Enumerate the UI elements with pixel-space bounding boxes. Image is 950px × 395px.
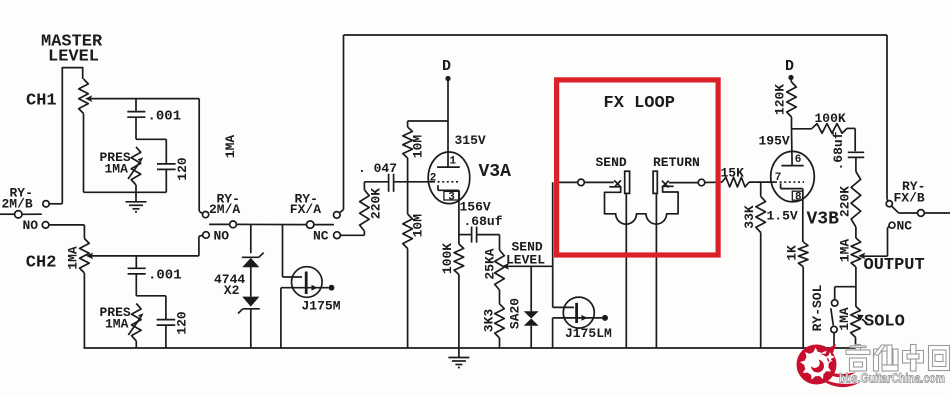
relay RY-2M/B label [2,186,33,212]
svg-text:120: 120 [175,157,190,181]
svg-text:CH2: CH2 [26,254,57,273]
svg-text:100K: 100K [815,111,846,126]
svg-text:V3B: V3B [807,210,840,230]
resistor 100K cathode [440,243,464,348]
potentiometer PRES 1MA CH1 [100,147,144,192]
node RY-2M/B terminal [43,201,49,207]
wire V3A plate lead [447,81,449,167]
svg-text:1MA: 1MA [105,162,129,177]
potentiometer 1MA output [837,238,865,267]
svg-text:25KA: 25KA [482,248,497,279]
wire RY-2M/B common from left edge [0,213,42,215]
ground CH1 [126,192,147,212]
label J175LM [565,326,612,341]
jack RETURN tip contact [662,181,669,188]
capacitor C .001 CH1 [127,99,181,140]
tube V3A plate [437,166,460,168]
wire NO to CH2 pot [49,225,85,239]
svg-text:OUTPUT: OUTPUT [864,256,925,275]
node RY-2M/B NO terminal [23,218,49,233]
wire send terminal to jack [584,181,614,183]
resistor 3K3 [481,290,504,348]
wire left riser to RY-FX/A [340,35,344,213]
pin 6 V3B [795,154,802,166]
wire RETURN sleeve to ground [655,193,657,348]
pin 1 V3A [450,156,457,168]
resistor 220K (FX/A NC feed) [360,182,384,236]
watermark url text [839,371,945,386]
wire right riser to RY-FX/B [887,35,888,201]
wire J175M gate feed [283,224,303,277]
tube V3B envelope [771,151,815,201]
diode zener 4744 lower [238,297,260,314]
svg-text:.68uf: .68uf [464,214,503,229]
svg-text:1MA: 1MA [105,317,129,332]
wire 100K to cap [847,128,855,151]
label OUTPUT [864,256,925,275]
svg-text:LEVEL: LEVEL [48,48,99,67]
svg-text:2M/B: 2M/B [2,197,33,212]
pin 8 V3B [792,191,803,203]
svg-text:3: 3 [448,191,455,203]
jack SEND tip contact [614,180,621,187]
highlight red box FX LOOP [557,80,719,255]
svg-text:RETURN: RETURN [653,155,700,170]
node RY-2M/A NO terminal [203,229,230,244]
node RY-SOL bottom contact [831,326,837,332]
svg-text:10M: 10M [411,214,426,238]
wire FX/B bus to right edge [899,212,950,214]
capacitor C .68uf send [459,214,503,243]
svg-text:J175LM: J175LM [565,326,612,341]
transistor Q J175LM [553,297,602,328]
wire FX loop top bus [344,34,888,36]
svg-text:1MA: 1MA [65,246,80,270]
power node D (V3B supply) [785,58,794,80]
node send terminal [578,179,585,186]
node CH1 label [26,92,57,111]
wire RY-SOL arm [831,308,834,325]
wire SEND sleeve to ground [625,193,627,348]
svg-text:1K: 1K [784,245,799,261]
wire V3B plate node [792,129,813,166]
wire CH1 pot bottom lead [83,114,85,193]
wire CH2 wiper to NO [86,235,203,259]
svg-text:195V: 195V [759,134,790,149]
resistor 33K [742,182,766,348]
node switch contact left [230,221,237,228]
svg-text:220K: 220K [838,186,853,217]
transistor Q J175M [281,267,329,298]
pin 7 V3B [775,172,782,184]
capacitor C 120 CH2 [157,296,190,348]
label 4744 X2 [214,272,245,298]
tube V3B grid [771,181,804,183]
node RY-SOL top contact [832,300,838,306]
svg-text:CH1: CH1 [26,92,57,111]
potentiometer 25KA send level [482,235,509,290]
wire 4744 top lead [250,225,252,254]
svg-text:3K3: 3K3 [481,309,496,333]
resistor 15K [721,166,750,187]
svg-text:2: 2 [430,173,437,185]
node RY-2M/A terminal [203,212,209,218]
label J175M [302,299,341,314]
pin 3 V3A [444,191,460,203]
resistor 10M upper [403,121,426,182]
svg-text:.001: .001 [148,109,182,125]
tube V3B plate [781,165,803,167]
svg-text:100K: 100K [440,243,455,274]
wire output pot bottom [855,267,857,306]
svg-text:315V: 315V [455,133,486,148]
svg-text:RY-SOL: RY-SOL [810,284,825,331]
label 156V [460,200,491,215]
capacitor C 120 CH1 [157,139,190,192]
tube V3B cathode [781,183,803,242]
svg-text:120: 120 [175,311,190,335]
node J175M drain dot [329,285,335,291]
wire channel switch bus [209,223,334,225]
wire RY-FX/B arm [892,206,899,213]
svg-text:FX LOOP: FX LOOP [604,94,675,113]
wire send tip wire [556,181,578,183]
label SOLO [864,313,905,332]
ground main [448,348,469,368]
node CH2 label [26,254,57,273]
svg-text:33K: 33K [742,205,757,229]
relay RY-FX/A label [290,192,321,218]
wire send jack feed riser [552,182,554,266]
label 315V [455,133,486,148]
wire output wiper to NC [864,227,890,257]
jack SEND plug bar [625,171,630,193]
svg-text:LEVEL: LEVEL [506,253,545,268]
relay RY-FX/B label [894,179,926,206]
svg-text:8: 8 [795,191,802,203]
resistor 100K plate [812,111,847,133]
svg-text:D: D [442,58,451,75]
wire CH1 pres box top [136,138,166,140]
potentiometer CH2 MASTER 1MA [65,239,89,274]
svg-text:.001: .001 [148,268,182,284]
node return terminal [698,179,705,186]
wire CH1 bottom [84,191,167,193]
wire main ground bus [84,347,857,349]
wire CH2 pot bottom lead [83,273,85,348]
svg-text:X2: X2 [224,283,240,298]
wire J175M source to ground [280,288,282,348]
svg-text:1MA: 1MA [837,239,852,263]
node RY-FX/A terminal [334,212,341,219]
svg-text:FX/B: FX/B [894,191,925,206]
wire send level wiper [508,265,553,267]
wire 4744 bottom lead [250,309,252,348]
svg-text:1.5V: 1.5V [767,209,798,224]
wire return to 15K [705,181,722,183]
wire branch to RY-SOL [835,287,856,300]
resistor 10M lower [403,182,426,348]
tube V3A envelope [428,152,470,204]
wire NC to 220K [340,234,364,236]
svg-text:1: 1 [450,156,457,168]
svg-text:SA20: SA20 [508,298,523,329]
wire CH2 pres box top [136,295,166,297]
pin 2 V3A [430,173,437,185]
wire return terminal wire [669,182,698,184]
wire 2M/B terminal to CH1 pot [49,203,62,205]
potentiometer 1MA solo [837,306,867,348]
tube V3A cathode [438,185,459,203]
label FX LOOP [604,94,675,113]
node RY-2M/B common contact [15,211,22,218]
wire CH1 pot top bracket [62,68,82,204]
wire CH1 wiper to relay [85,95,202,213]
label 195V [759,134,790,149]
tube V3A grid [429,181,461,183]
label V3B [807,210,840,230]
power node D (V3A supply) [442,58,451,81]
svg-text:NC: NC [897,219,913,234]
capacitor C .047 [358,161,429,192]
svg-text:SOLO: SOLO [864,313,905,332]
diode zener 4744 upper [242,253,264,268]
jack bodies SEND and RETURN [605,186,679,224]
svg-text:2M/A: 2M/A [209,202,240,217]
relay RY-SOL label [810,284,825,331]
svg-text:. 047: . 047 [358,161,397,176]
label SEND [596,155,627,170]
svg-text:156V: 156V [460,200,491,215]
jack RETURN plug bar [653,171,657,193]
node RY-FX/B NC terminal [889,219,912,234]
node FX/B contact [918,210,925,217]
svg-text:10M: 10M [410,135,425,159]
capacitor C .68uf output [831,131,864,171]
label V3A [479,162,512,182]
diode SA20 [508,266,539,348]
capacitor C .001 CH2 [128,256,182,296]
potentiometer CH1 MASTER 1M [79,79,89,114]
node MASTER LEVEL label [41,33,103,67]
svg-text:220K: 220K [368,188,383,219]
wire V3A cathode node [458,203,460,244]
wire 15K to grid [749,181,771,183]
wire 4744 mid lead [250,267,252,297]
wire J175LM source to ground [552,318,554,348]
svg-text:SEND: SEND [596,155,627,170]
relay RY-2M/A label [209,192,240,218]
node RY-FX/A NC terminal [313,229,340,244]
wire plate to 10M junction [408,120,448,122]
node J175LM drain dot [602,315,608,321]
svg-text:NO: NO [23,218,39,233]
svg-text:120K: 120K [772,84,787,115]
svg-text:1MA: 1MA [223,135,238,159]
svg-text:6: 6 [795,154,802,166]
svg-text:bbs.GuitarChina.com: bbs.GuitarChina.com [839,371,945,386]
svg-text:FX/A: FX/A [290,202,321,217]
resistor 1K cathode [784,242,808,348]
node switch contact right [307,221,314,228]
label 1.5V [767,209,798,224]
label 1MA floating (CH1 master) [223,135,238,159]
wire RY-SOL to ground [833,333,835,348]
svg-text:NO: NO [214,229,230,244]
svg-text:7: 7 [775,172,782,184]
svg-text:1MA: 1MA [837,307,852,331]
resistor 220K output [838,172,861,239]
svg-text:NC: NC [313,229,329,244]
svg-text:D: D [785,58,794,75]
watermark dragon logo [797,344,860,387]
label RETURN [653,155,700,170]
potentiometer PRES 1MA CH2 [100,304,144,349]
svg-text:J175M: J175M [302,299,341,314]
watermark text GuitarChina CJK [846,345,950,372]
wire J175LM gate feed [553,266,574,307]
node RY-FX/B terminal [886,201,892,207]
svg-text:.68uf: .68uf [831,131,846,170]
label SEND LEVEL [506,240,545,268]
svg-text:V3A: V3A [479,162,512,182]
resistor 120K [772,80,796,129]
